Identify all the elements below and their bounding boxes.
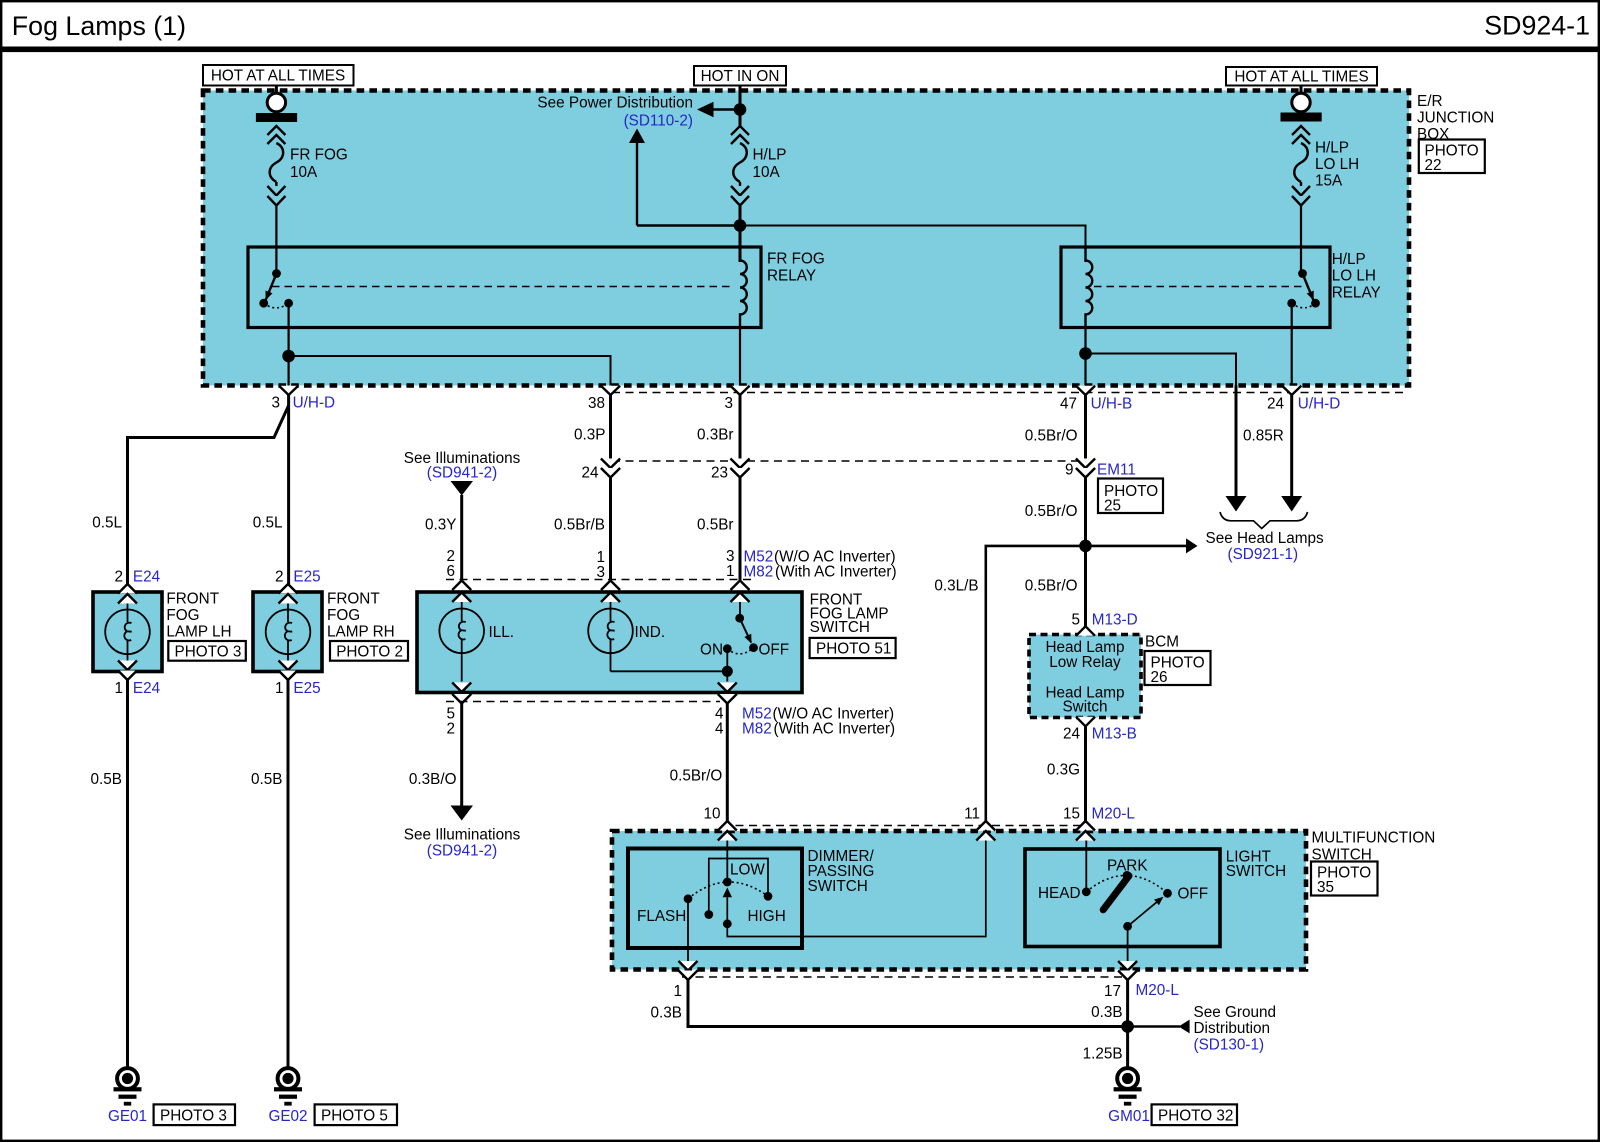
svg-text:E25: E25: [293, 680, 320, 697]
wire: ILL lamp to illuminations 0.3B/O: [460, 704, 463, 807]
connector chevron M13-D: [1076, 626, 1095, 636]
see ground distribution reference: [1128, 1004, 1276, 1054]
svg-text:0.5L: 0.5L: [92, 515, 122, 532]
svg-text:E25: E25: [293, 569, 320, 586]
svg-text:1: 1: [275, 680, 284, 697]
svg-text:3: 3: [271, 395, 280, 412]
wire: 0.5Br/B down: [609, 478, 612, 581]
svg-text:H/LP: H/LP: [1332, 251, 1366, 268]
svg-text:6: 6: [446, 563, 455, 580]
wire: pin 17 0.3B down: [1126, 980, 1129, 1027]
wire pin47 to connector 9: [1084, 395, 1087, 459]
label FRONT FOG LAMP SWITCH: [810, 592, 889, 637]
connector chevrons pin 11: [976, 821, 995, 841]
front fog lamp switch pin labels (top): [446, 548, 896, 581]
connector chevrons pin 1: [679, 961, 698, 980]
pin 1 E24 labels: [114, 680, 160, 697]
svg-text:FRONT: FRONT: [166, 591, 219, 608]
junction dot D (coil output split): [1079, 347, 1092, 360]
svg-text:E24: E24: [133, 569, 161, 586]
svg-text:17: 17: [1104, 983, 1121, 1000]
svg-text:LAMP LH: LAMP LH: [166, 623, 231, 640]
svg-text:47: 47: [1060, 396, 1077, 413]
svg-text:LOW: LOW: [730, 862, 765, 879]
connector chevrons ILL bottom: [452, 683, 471, 704]
FR FOG relay internal dashed link: [272, 286, 732, 288]
svg-text:15A: 15A: [1315, 173, 1343, 190]
label PHOTO 3 box (ground): [154, 1104, 235, 1125]
svg-text:2: 2: [446, 721, 455, 738]
svg-text:1: 1: [673, 983, 682, 1000]
svg-text:U/H-D: U/H-D: [293, 395, 336, 412]
svg-text:JUNCTION: JUNCTION: [1417, 110, 1494, 127]
svg-text:(SD921-1): (SD921-1): [1228, 546, 1299, 563]
FR FOG relay switch: [259, 269, 293, 308]
connector chevrons ILL top: [452, 581, 471, 603]
svg-text:(SD110-2): (SD110-2): [624, 113, 693, 130]
svg-text:38: 38: [588, 395, 605, 412]
connector chevrons E25 top: [279, 584, 298, 604]
wire: 1.25B to ground: [1126, 1027, 1129, 1068]
svg-text:EM11: EM11: [1097, 462, 1136, 479]
wire: head lamps feed 1 with arrow: [1226, 386, 1247, 512]
svg-text:FR FOG: FR FOG: [767, 251, 825, 268]
svg-text:RELAY: RELAY: [1332, 285, 1381, 302]
svg-text:ON: ON: [700, 642, 723, 659]
svg-text:SWITCH: SWITCH: [810, 619, 870, 636]
wire: fuse FR FOG to relay switch pivot: [275, 206, 277, 272]
svg-text:(With AC Inverter): (With AC Inverter): [774, 721, 896, 738]
bus bar (right): [1281, 113, 1322, 122]
label PHOTO 22 box: [1419, 140, 1485, 175]
svg-text:GM01: GM01: [1108, 1108, 1150, 1125]
pin 24 U/H-D labels: [1267, 396, 1340, 413]
see illuminations lower reference: [404, 806, 521, 860]
svg-text:See Illuminations: See Illuminations: [404, 827, 521, 844]
fuse H/LP 10A: [731, 126, 787, 206]
svg-text:26: 26: [1151, 669, 1168, 686]
svg-text:IND.: IND.: [635, 624, 666, 641]
svg-text:U/H-D: U/H-D: [1298, 396, 1341, 413]
H/LP relay coil: [1086, 247, 1093, 328]
svg-text:OFF: OFF: [759, 642, 790, 659]
svg-text:0.5B: 0.5B: [91, 771, 122, 788]
connector row above multifunction (dashed): [722, 825, 1087, 827]
label FR FOG RELAY: [767, 251, 825, 285]
label PHOTO 5 box (ground): [315, 1104, 397, 1125]
svg-text:LAMP RH: LAMP RH: [327, 623, 395, 640]
svg-text:1: 1: [114, 680, 123, 697]
svg-text:SWITCH: SWITCH: [808, 878, 868, 895]
svg-text:0.3B: 0.3B: [1091, 1004, 1122, 1021]
junction dot E (IND / ON output): [722, 666, 733, 677]
lamp IND.: [588, 602, 665, 671]
wire pin3 to connector 23: [739, 395, 742, 459]
bus bar (left): [256, 113, 297, 122]
connector 24 (in-line): [581, 459, 620, 482]
wire: branch to head lamps left: [1086, 354, 1237, 386]
junction dot B (fuse output to relays): [734, 219, 747, 232]
svg-text:M20-L: M20-L: [1136, 982, 1179, 999]
dimmer mechanism: [637, 841, 786, 929]
wire: light switch to pin 17: [1127, 926, 1129, 962]
svg-text:Switch: Switch: [1062, 699, 1107, 716]
svg-text:SD924-1: SD924-1: [1484, 11, 1590, 41]
svg-text:10A: 10A: [753, 164, 781, 181]
wire: HOT AT ALL TIMES right stub: [1300, 86, 1303, 96]
svg-text:MULTIFUNCTION: MULTIFUNCTION: [1312, 830, 1436, 847]
svg-text:LO LH: LO LH: [1332, 268, 1376, 285]
label MULTIFUNCTION SWITCH: [1312, 830, 1436, 864]
svg-text:PHOTO 51: PHOTO 51: [816, 641, 891, 658]
svg-text:(SD941-2): (SD941-2): [427, 465, 498, 482]
wire: fuse 15A to H/LP relay switch pivot: [1300, 206, 1302, 272]
front fog lamp switch box: [417, 592, 802, 693]
connector chevrons E24 bottom: [118, 661, 137, 681]
svg-text:FOG: FOG: [327, 607, 360, 624]
svg-text:Distribution: Distribution: [1194, 1020, 1271, 1037]
ground GE01: [114, 1068, 142, 1106]
svg-text:24: 24: [581, 465, 599, 482]
connector 23 (in-line): [711, 459, 750, 482]
svg-text:OFF: OFF: [1178, 885, 1209, 902]
label DIMMER/PASSING SWITCH: [808, 848, 875, 895]
svg-text:HIGH: HIGH: [748, 908, 786, 925]
svg-text:SWITCH: SWITCH: [1226, 863, 1286, 880]
wire IND to ON contact: [611, 649, 728, 682]
wire: H/LP relay output to pin 24: [1291, 303, 1293, 385]
H/LP relay internal dashed link: [1094, 286, 1308, 288]
svg-text:GE01: GE01: [108, 1108, 147, 1125]
front fog lamp LH box E24: [93, 592, 162, 672]
svg-text:GE02: GE02: [268, 1108, 307, 1125]
svg-text:0.5Br: 0.5Br: [697, 517, 734, 534]
H/LP relay switch: [1287, 269, 1320, 308]
svg-text:M13-B: M13-B: [1092, 726, 1137, 743]
svg-text:11: 11: [964, 806, 980, 823]
svg-text:PHOTO 32: PHOTO 32: [1158, 1107, 1233, 1124]
pin 5 M13-D labels: [1071, 612, 1137, 629]
svg-text:H/LP: H/LP: [753, 147, 787, 164]
wire: fog switch pin 4 to multifunction pin 10 (0.5Br/O): [726, 704, 729, 825]
svg-text:2: 2: [275, 569, 284, 586]
FR FOG relay box: [248, 247, 761, 328]
svg-text:0.5L: 0.5L: [253, 515, 283, 532]
wire: head lamps feed 2 (0.85R) with arrow: [1281, 395, 1302, 512]
junction dot C (FR relay output split): [282, 350, 295, 363]
svg-text:10A: 10A: [290, 164, 318, 181]
pin 3 center connector: [730, 386, 749, 395]
svg-text:4: 4: [715, 721, 724, 738]
pin 3 U/H-D labels: [271, 395, 335, 412]
svg-text:22: 22: [1425, 157, 1442, 174]
label PHOTO 32 box: [1152, 1104, 1237, 1125]
svg-text:M13-D: M13-D: [1092, 612, 1138, 629]
pin 24 U/H-D connector: [1282, 386, 1301, 395]
wire: HOT IN ON feed: [739, 86, 742, 127]
pin 17 M20-L labels: [1104, 982, 1179, 1000]
svg-text:15: 15: [1063, 806, 1080, 823]
svg-text:FR FOG: FR FOG: [290, 147, 348, 164]
svg-text:0.3Y: 0.3Y: [425, 517, 456, 534]
svg-text:0.5Br/B: 0.5Br/B: [554, 517, 605, 534]
pin 15 M20-L labels: [1063, 806, 1135, 823]
svg-text:0.3L/B: 0.3L/B: [934, 578, 978, 595]
BCM inner labels: [1045, 639, 1124, 716]
fog switch pin labels (bottom): [446, 706, 895, 738]
connector chevrons pin 10: [718, 821, 737, 841]
svg-text:PHOTO 5: PHOTO 5: [321, 1107, 388, 1124]
svg-text:ILL.: ILL.: [489, 624, 515, 641]
pin 2 E24 labels: [114, 569, 160, 586]
pin 38 connector: [601, 386, 620, 395]
wire: EM11 to BCM 0.5Br/O: [1084, 478, 1087, 631]
connector 9 EM11 (in-line): [1065, 459, 1136, 479]
wire: fuse H/LP 10A output down: [739, 206, 742, 263]
svg-text:3: 3: [724, 395, 733, 412]
svg-text:1.25B: 1.25B: [1083, 1046, 1123, 1063]
svg-text:24: 24: [1063, 726, 1081, 743]
svg-text:M82: M82: [744, 564, 774, 581]
label PHOTO 35 box: [1311, 862, 1378, 897]
svg-text:Low Relay: Low Relay: [1049, 654, 1121, 671]
svg-text:0.5Br/O: 0.5Br/O: [1025, 428, 1078, 445]
connector chevrons pin 17: [1118, 961, 1137, 980]
svg-text:24: 24: [1267, 396, 1285, 413]
svg-text:E/R: E/R: [1417, 93, 1443, 110]
connector chevrons switch pivot top: [731, 581, 750, 603]
see illuminations upper reference: [404, 450, 521, 496]
FR FOG relay coil: [740, 247, 747, 328]
label PHOTO 51 box: [810, 638, 896, 658]
lamp ILL.: [439, 602, 514, 682]
svg-text:HOT AT ALL TIMES: HOT AT ALL TIMES: [211, 68, 345, 85]
svg-text:E24: E24: [133, 680, 161, 697]
svg-text:35: 35: [1317, 879, 1334, 896]
connector row M (dashed): [612, 460, 1085, 462]
svg-text:HEAD: HEAD: [1038, 885, 1081, 902]
svg-text:PHOTO 3: PHOTO 3: [175, 643, 242, 660]
svg-text:PARK: PARK: [1107, 857, 1148, 874]
connector chevrons E25 bottom: [279, 661, 298, 681]
pin 1 E25 labels: [275, 680, 321, 697]
wire: pin3 U/H-D down with jog to E24/E25: [128, 395, 289, 585]
svg-text:25: 25: [1104, 498, 1121, 515]
svg-text:9: 9: [1065, 462, 1074, 479]
pin 47 U/H-B labels: [1060, 396, 1132, 413]
connector row below fog switch (dashed): [446, 701, 720, 703]
label PHOTO 25 box: [1098, 479, 1163, 515]
wire: H/LP coil to pin 47: [1084, 328, 1086, 386]
wire: E24 to ground 0.5B: [126, 680, 129, 1068]
pin 3 U/H-D connector: [279, 386, 298, 395]
label PHOTO 26 box: [1145, 651, 1211, 686]
svg-text:Fog Lamps (1): Fog Lamps (1): [12, 11, 186, 41]
front fog lamp RH box E25: [253, 592, 322, 672]
label HOT AT ALL TIMES (left): [203, 65, 354, 86]
connector chevrons pin4 bottom: [718, 683, 737, 704]
wire: HOT AT ALL TIMES left stub: [275, 86, 278, 96]
svg-text:HOT IN ON: HOT IN ON: [701, 68, 780, 85]
svg-text:BCM: BCM: [1145, 634, 1179, 651]
svg-text:0.5Br/O: 0.5Br/O: [1025, 578, 1078, 595]
connector row U/H (dashed): [612, 392, 1408, 394]
svg-text:FOG: FOG: [166, 607, 199, 624]
svg-text:0.3P: 0.3P: [574, 427, 605, 444]
svg-text:PHOTO 2: PHOTO 2: [336, 643, 403, 660]
svg-text:2: 2: [114, 569, 123, 586]
pin 2 E25 labels: [275, 569, 321, 586]
label HOT IN ON: [694, 66, 786, 86]
svg-text:LO LH: LO LH: [1315, 156, 1359, 173]
wire pin38 to connector 24: [609, 395, 612, 459]
connector circle (battery feed left): [267, 93, 285, 111]
svg-text:0.5B: 0.5B: [251, 771, 282, 788]
wire: E25 to ground 0.5B: [287, 680, 290, 1068]
svg-text:PHOTO 3: PHOTO 3: [160, 1107, 227, 1124]
fog switch ON/OFF mechanism: [700, 602, 789, 659]
wire: FLASH to pin 1: [687, 899, 689, 962]
fuse FR FOG 10A: [267, 126, 347, 206]
wire: illumination feed 0.3Y: [460, 495, 463, 580]
pin 47 U/H-B connector: [1076, 386, 1095, 395]
wire: feed to H/LP relay coil: [740, 226, 1086, 263]
dimmer/passing switch box: [628, 849, 802, 949]
fuse H/LP LO LH 15A: [1292, 126, 1359, 206]
svg-text:5: 5: [1071, 612, 1080, 629]
see head lamps reference arrow: [1086, 530, 1325, 563]
multifunction switch box (dashed blue): [612, 831, 1306, 970]
wire: FR relay output down: [288, 303, 290, 385]
svg-text:0.3G: 0.3G: [1047, 762, 1080, 779]
svg-text:U/H-B: U/H-B: [1091, 396, 1133, 413]
BCM box (dashed): [1029, 635, 1141, 718]
svg-text:HOT AT ALL TIMES: HOT AT ALL TIMES: [1234, 69, 1368, 86]
svg-text:RELAY: RELAY: [767, 268, 816, 285]
wire: branch to 0.3L/B: [986, 546, 1086, 824]
label PHOTO 2 box: [330, 641, 408, 661]
connector chevrons IND top: [601, 581, 620, 603]
svg-text:See Ground: See Ground: [1194, 1004, 1277, 1021]
wire: BCM to multifunction pin 15 (0.3G): [1084, 726, 1087, 824]
label LIGHT SWITCH: [1226, 849, 1286, 881]
junction dot G (ground junction): [1121, 1020, 1134, 1033]
svg-text:M20-L: M20-L: [1092, 806, 1135, 823]
label H/LP LO LH RELAY: [1332, 251, 1381, 302]
svg-text:M82: M82: [742, 721, 772, 738]
connector chevron M13-B: [1076, 717, 1095, 727]
svg-text:0.85R: 0.85R: [1243, 428, 1284, 445]
wire: branch to pin 38: [289, 356, 611, 386]
connector chevrons pin 15: [1076, 821, 1095, 841]
svg-text:0.3Br: 0.3Br: [697, 427, 734, 444]
ground GE02: [274, 1068, 302, 1106]
light switch box: [1025, 849, 1220, 947]
pin 24 M13-B labels: [1063, 726, 1137, 743]
svg-text:FLASH: FLASH: [637, 908, 686, 925]
svg-text:See Power Distribution: See Power Distribution: [537, 95, 693, 112]
svg-text:See Head Lamps: See Head Lamps: [1206, 530, 1325, 547]
junction dot A (hot in on / power dist): [734, 103, 747, 116]
svg-text:FRONT: FRONT: [327, 591, 380, 608]
junction dot F (head lamp low branch): [1079, 540, 1092, 553]
connector circle (battery feed right): [1292, 93, 1310, 111]
svg-text:(With AC Inverter): (With AC Inverter): [775, 564, 897, 581]
svg-text:0.5Br/O: 0.5Br/O: [1025, 503, 1078, 520]
light switch mechanism: [1038, 841, 1208, 931]
ground GM01: [1114, 1068, 1142, 1106]
brace under head lamp arrows: [1220, 512, 1308, 529]
connector row above fog switch (dashed): [446, 579, 752, 581]
connector row below multifunction (dashed): [682, 976, 1129, 978]
svg-text:0.5Br/O: 0.5Br/O: [670, 768, 723, 785]
svg-text:(SD130-1): (SD130-1): [1194, 1037, 1265, 1054]
svg-text:(SD941-2): (SD941-2): [427, 843, 498, 860]
svg-text:10: 10: [703, 806, 720, 823]
wire: 0.5Br down: [739, 478, 742, 581]
H/LP LO LH relay box: [1061, 247, 1330, 328]
wire: pin 1 0.3B to ground junction: [688, 980, 1128, 1027]
see power distribution reference: [537, 95, 740, 226]
label FRONT FOG LAMP RH: [327, 591, 395, 641]
svg-text:1: 1: [726, 563, 735, 580]
svg-text:3: 3: [596, 564, 605, 581]
label FRONT FOG LAMP LH: [166, 591, 231, 641]
svg-text:0.3B: 0.3B: [651, 1005, 682, 1022]
label HOT AT ALL TIMES (right): [1226, 67, 1377, 86]
svg-text:H/LP: H/LP: [1315, 140, 1349, 157]
label PHOTO 3 box: [168, 641, 246, 661]
wire: coil feed pin 3 center: [739, 328, 741, 386]
svg-text:23: 23: [711, 465, 728, 482]
lamp FRONT FOG LAMP LH: [105, 604, 150, 661]
label E/R JUNCTION BOX: [1417, 93, 1494, 143]
connector chevrons E24 top: [118, 584, 137, 604]
E/R junction box (dashed blue box): [203, 91, 1409, 386]
wire: dimmer to pin 11 inside: [727, 841, 986, 937]
svg-text:0.3B/O: 0.3B/O: [409, 771, 457, 788]
lamp FRONT FOG LAMP RH: [266, 604, 311, 661]
